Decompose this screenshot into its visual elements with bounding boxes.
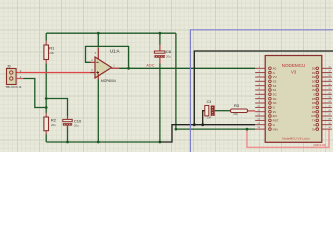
pin 28 TX (right) (312, 119, 332, 123)
pin 27 RX (right) (311, 114, 331, 118)
pin 3 VU (left) (255, 75, 277, 79)
wire: C10 red lead stubs (67, 116, 69, 129)
svg-text:VIN: VIN (273, 127, 278, 131)
wire: C3 to R3 link (215, 110, 231, 112)
svg-text:TBLOCK-I2: TBLOCK-I2 (5, 85, 21, 89)
pin 1 A0 (left) (255, 66, 276, 70)
svg-text:20k: 20k (233, 112, 238, 116)
pin 11 3V (left) (255, 110, 276, 114)
pin 10 G (left) (255, 106, 275, 110)
svg-text:V3: V3 (291, 70, 297, 75)
node: junction ground/C10 (66, 141, 69, 144)
svg-text:C6: C6 (166, 49, 172, 54)
pin 18 D2 (right) (312, 75, 332, 79)
node: junction VCC/op-amp V+ (97, 32, 100, 35)
pin 30 3V (right) (312, 127, 332, 131)
svg-text:20u: 20u (166, 55, 171, 59)
wire: VCC drop to VIN line x=175.9 (175, 33, 177, 129)
node: junction VCC/C6 (159, 32, 162, 35)
resistor R3 20k (horizontal) (230, 103, 247, 116)
wire: pink net VIN to 3V (right) (247, 129, 329, 147)
pin 6 S1 (left) (255, 88, 276, 92)
pin 26 D8 (right) (312, 110, 332, 114)
svg-text:S3: S3 (273, 80, 277, 84)
pin 22 G (right) (313, 92, 332, 96)
wire: feedback loop output to inverting input (86, 46, 129, 68)
connector J3 TBLOCK-I2 (5, 64, 23, 89)
op-amp U1:A MCP6004 (90, 48, 119, 83)
node: junction divider/J3 tap (45, 106, 48, 109)
wire: C6 red leads (159, 45, 161, 64)
pin 17 D1 (right) (312, 71, 332, 75)
svg-text:D1: D1 (312, 71, 316, 75)
node: junction VIN line corner (175, 128, 178, 131)
wire: op-amp V- pin down to ground x=98.3 (97, 79, 99, 142)
wire: signal J3 pin2 to op-amp +input y=72.5 (red) (16, 72, 90, 74)
node: junction divider/C10 (45, 97, 48, 100)
wire: black net top right y=51 to edge and down (194, 51, 333, 125)
svg-text:U1:A: U1:A (110, 49, 120, 54)
pin 24 D6 (right) (312, 101, 332, 105)
pin 15 VIN (left) (255, 127, 277, 131)
wire: divider column x=46.2 (R1/R2) (45, 33, 47, 142)
capacitor C6 20u (polarized) (154, 49, 171, 58)
capacitor C3 1uF (polarized, horizontal) (205, 100, 215, 120)
wire: ground rail dark segment to NodeMCU G pin (160, 125, 255, 142)
svg-text:MCP6004: MCP6004 (101, 79, 116, 83)
svg-text:RX: RX (311, 114, 315, 118)
wire: op-amp V+ drop from VCC rail x=98.3 (97, 33, 99, 47)
wire: C3 left lead down to ground line (203, 111, 205, 125)
svg-text:(AMICA-R2): (AMICA-R2) (313, 144, 326, 147)
svg-text:20u: 20u (74, 123, 79, 127)
wire: VCC rail (wire A) y=33.2 (46, 32, 176, 34)
pin 20 D4 (right) (312, 84, 332, 88)
svg-text:3V: 3V (312, 127, 316, 131)
pin 25 D7 (right) (312, 106, 332, 110)
resistor R2 20k (44, 117, 57, 131)
pin 21 3V (right) (312, 88, 332, 92)
svg-text:C3: C3 (207, 100, 212, 104)
svg-text:20k: 20k (49, 51, 54, 55)
svg-text:SK: SK (273, 101, 277, 105)
wire: J3 pin1 to divider tap (24, 79, 47, 108)
pin 7 SC (left) (255, 92, 277, 96)
svg-text:R3: R3 (234, 103, 240, 108)
wire: C6 column x=159.9 (VCC to ground, through cap) (159, 33, 161, 142)
wire: branch to C10 y=98.5 (46, 99, 67, 117)
wire: VIN line y=129.1 to NodeMCU pin VIN (176, 128, 255, 130)
wire: R3 to NodeMCU 3V pin (red) (248, 110, 255, 112)
wire: red lead segments of R1/R2 (45, 41, 47, 135)
pin 12 EN (left) (255, 114, 277, 118)
pin 14 G (left) (255, 123, 275, 127)
svg-text:20k: 20k (51, 123, 56, 127)
pin 4 S3 (left) (255, 79, 276, 83)
pin 13 RST (left) (255, 119, 279, 123)
svg-text:J3: J3 (7, 64, 11, 68)
pin 16 D0 (right) (312, 66, 332, 70)
wire: op-amp output / ADC line y=68.3 to NodeMCU A0 (120, 67, 256, 69)
pin 8 S0 (left) (255, 97, 276, 101)
svg-text:D3: D3 (312, 80, 316, 84)
node: junction ground/C6 (159, 141, 162, 144)
node: junction ground/op-amp V- (97, 141, 100, 144)
node: junction output/feedback (127, 67, 130, 70)
wire: blue net corner x=190.4 y=29.8 (190, 30, 333, 152)
node: junction C3 lead/ground line (201, 123, 204, 126)
node: junction black net/ground line (193, 123, 196, 126)
svg-text:R1: R1 (49, 45, 55, 50)
pin 5 S2 (left) (255, 84, 276, 88)
svg-text:D6: D6 (312, 101, 316, 105)
module U2 NodeMCU V3 (265, 56, 326, 147)
capacitor C10 20u (polarized) (63, 119, 82, 128)
node: junction VIN/pink (246, 128, 249, 131)
svg-text:NODEMCU: NODEMCU (282, 63, 306, 68)
wire: ground rail y=142 (46, 141, 160, 143)
pin 23 D5 (right) (312, 97, 332, 101)
pin 29 G (right) (313, 123, 332, 127)
pin 9 SK (left) (255, 101, 276, 105)
pin 19 D3 (right) (312, 79, 332, 83)
svg-text:NodeMCU V3 LoLin: NodeMCU V3 LoLin (282, 137, 310, 141)
svg-text:EN: EN (273, 114, 277, 118)
svg-text:1uF: 1uF (206, 115, 211, 119)
grid background (0, 0, 333, 152)
wire: C10 bottom lead to ground (67, 126, 69, 142)
pin 2 G (left) (255, 71, 275, 75)
resistor R1 20k (44, 45, 55, 60)
svg-text:ADC: ADC (146, 62, 154, 67)
